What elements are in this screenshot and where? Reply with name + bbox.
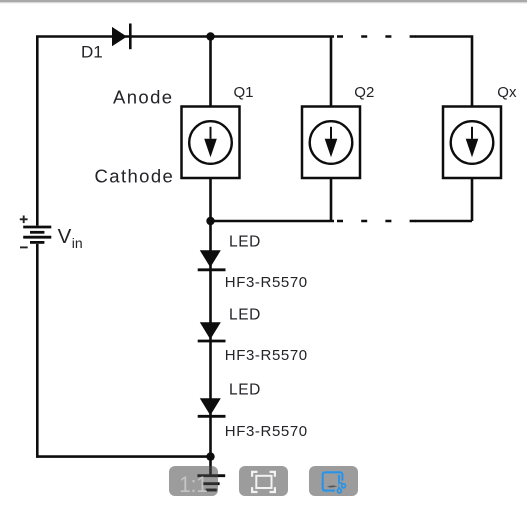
svg-text:1:1: 1:1 <box>179 472 208 497</box>
svg-text:LED: LED <box>229 381 261 398</box>
svg-text:HF3-R5570: HF3-R5570 <box>225 274 308 291</box>
svg-text:HF3-R5570: HF3-R5570 <box>225 347 308 364</box>
svg-text:HF3-R5570: HF3-R5570 <box>225 423 308 440</box>
svg-text:Q1: Q1 <box>234 84 254 101</box>
svg-text:D1: D1 <box>81 43 103 62</box>
svg-text:Qx: Qx <box>497 84 517 101</box>
svg-text:LED: LED <box>229 307 261 324</box>
svg-text:Anode: Anode <box>113 87 174 108</box>
svg-text:V: V <box>58 225 72 248</box>
svg-text:in: in <box>72 235 83 251</box>
svg-text:Cathode: Cathode <box>95 166 175 187</box>
svg-text:Q2: Q2 <box>354 84 374 101</box>
svg-text:LED: LED <box>229 233 261 250</box>
